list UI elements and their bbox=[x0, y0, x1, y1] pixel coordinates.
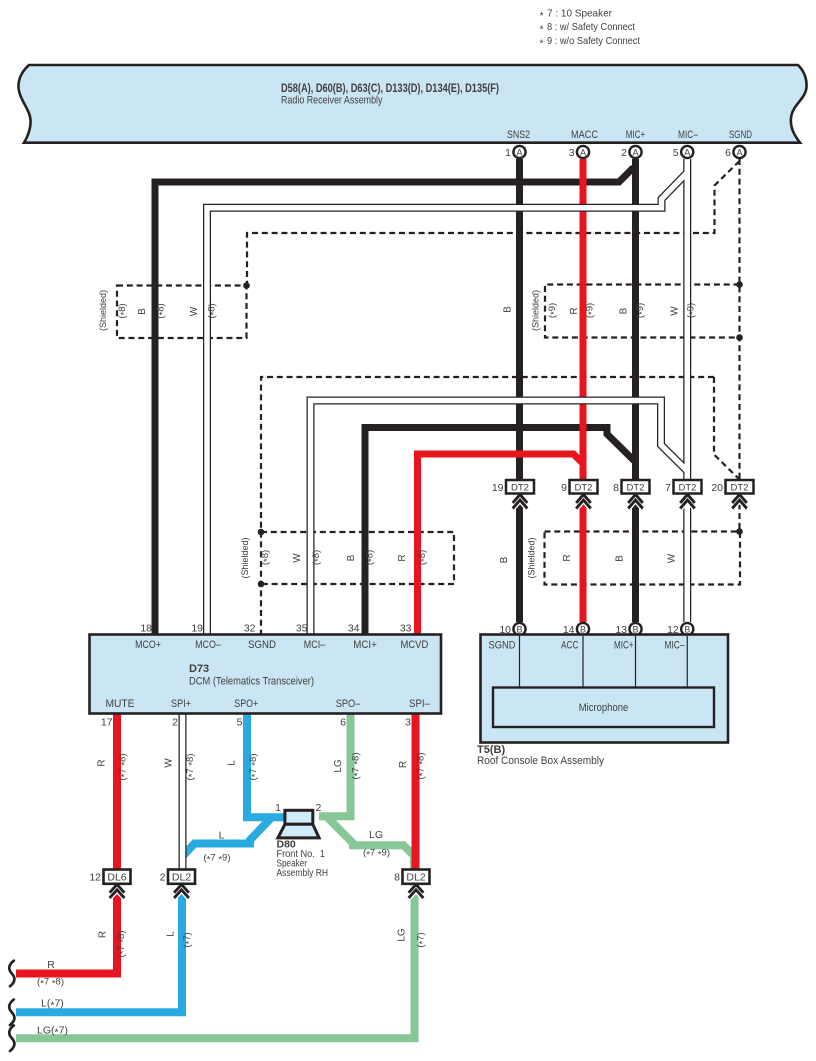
svg-text:32: 32 bbox=[244, 623, 256, 635]
svg-text:LG: LG bbox=[369, 829, 383, 841]
svg-text:17: 17 bbox=[101, 717, 113, 729]
svg-text:7 : 10 Speaker: 7 : 10 Speaker bbox=[547, 8, 612, 20]
svg-text:(*7 *8): (*7 *8) bbox=[185, 754, 198, 781]
svg-text:D73: D73 bbox=[189, 663, 209, 675]
svg-text:A: A bbox=[632, 147, 638, 157]
svg-text:DT2: DT2 bbox=[575, 483, 593, 494]
svg-text:A: A bbox=[580, 147, 586, 157]
svg-text:B: B bbox=[346, 554, 357, 561]
svg-text:MCI+: MCI+ bbox=[353, 639, 377, 651]
svg-text:MIC+: MIC+ bbox=[626, 129, 646, 141]
svg-text:DT2: DT2 bbox=[731, 483, 749, 494]
svg-text:*: * bbox=[540, 24, 544, 36]
svg-text:33: 33 bbox=[400, 623, 412, 635]
svg-text:(*8): (*8) bbox=[206, 303, 219, 318]
svg-text:MACC: MACC bbox=[571, 129, 598, 141]
svg-text:R: R bbox=[398, 761, 409, 768]
svg-text:(*7 *9): (*7 *9) bbox=[363, 848, 390, 861]
svg-text:8: 8 bbox=[394, 872, 400, 884]
svg-text:35: 35 bbox=[296, 623, 308, 635]
svg-text:5: 5 bbox=[673, 147, 679, 159]
svg-text:6: 6 bbox=[340, 717, 346, 729]
svg-text:(*7): (*7) bbox=[416, 932, 429, 947]
svg-text:DL6: DL6 bbox=[107, 872, 126, 884]
svg-text:Microphone: Microphone bbox=[579, 702, 629, 714]
svg-text:B: B bbox=[516, 624, 522, 634]
svg-text:(*7): (*7) bbox=[182, 932, 195, 947]
svg-text:DT2: DT2 bbox=[679, 483, 697, 494]
svg-text:B: B bbox=[615, 555, 626, 562]
svg-text:(Shielded): (Shielded) bbox=[240, 538, 251, 579]
svg-text:SGND: SGND bbox=[489, 640, 516, 652]
svg-text:DCM (Telematics Transceiver): DCM (Telematics Transceiver) bbox=[189, 676, 314, 688]
svg-text:8 : w/ Safety Connect: 8 : w/ Safety Connect bbox=[547, 21, 635, 33]
svg-text:Roof Console Box Assembly: Roof Console Box Assembly bbox=[477, 755, 604, 767]
svg-text:D58(A), D60(B), D63(C), D133(D: D58(A), D60(B), D63(C), D133(D), D134(E)… bbox=[281, 83, 499, 95]
svg-text:R: R bbox=[47, 959, 55, 971]
svg-text:SGND: SGND bbox=[248, 639, 276, 651]
svg-text:(Shielded): (Shielded) bbox=[531, 290, 542, 331]
svg-text:MIC+: MIC+ bbox=[614, 640, 634, 652]
svg-text:B: B bbox=[503, 306, 514, 313]
svg-text:(*7 *8): (*7 *8) bbox=[351, 753, 364, 780]
svg-text:SNS2: SNS2 bbox=[507, 129, 530, 141]
svg-text:34: 34 bbox=[348, 623, 360, 635]
svg-text:(*8): (*8) bbox=[117, 303, 130, 318]
svg-text:(*8): (*8) bbox=[155, 303, 168, 318]
svg-text:SPO+: SPO+ bbox=[234, 698, 258, 710]
svg-text:B: B bbox=[580, 624, 586, 634]
svg-text:(*8): (*8) bbox=[365, 550, 378, 565]
svg-text:R: R bbox=[98, 931, 109, 938]
svg-text:(*7 *9): (*7 *9) bbox=[204, 853, 231, 866]
svg-text:W: W bbox=[164, 758, 175, 768]
svg-text:SPI+: SPI+ bbox=[171, 698, 191, 710]
svg-text:6: 6 bbox=[725, 147, 731, 159]
svg-text:B: B bbox=[619, 307, 630, 314]
svg-text:(*9): (*9) bbox=[585, 303, 598, 318]
svg-text:19: 19 bbox=[191, 623, 203, 635]
svg-text:A: A bbox=[684, 147, 690, 157]
svg-text:B: B bbox=[499, 556, 510, 563]
svg-text:LG: LG bbox=[333, 759, 344, 773]
svg-text:2: 2 bbox=[160, 872, 166, 884]
svg-text:2: 2 bbox=[172, 717, 178, 729]
svg-text:Radio Receiver Assembly: Radio Receiver Assembly bbox=[281, 95, 383, 107]
svg-text:(*7 *8): (*7 *8) bbox=[118, 754, 131, 781]
svg-text:R: R bbox=[97, 759, 108, 766]
svg-text:L: L bbox=[166, 931, 177, 937]
svg-text:7: 7 bbox=[665, 482, 671, 494]
svg-text:(*9): (*9) bbox=[635, 303, 648, 318]
svg-text:B: B bbox=[632, 624, 638, 634]
svg-text:R: R bbox=[562, 554, 573, 561]
svg-text:(*8): (*8) bbox=[311, 550, 324, 565]
svg-text:(*8): (*8) bbox=[417, 550, 430, 565]
svg-text:18: 18 bbox=[140, 623, 152, 635]
svg-text:SPI–: SPI– bbox=[409, 698, 431, 710]
svg-text:DT2: DT2 bbox=[627, 483, 645, 494]
svg-text:B: B bbox=[137, 308, 148, 315]
svg-text:2: 2 bbox=[621, 147, 627, 159]
svg-text:SPO–: SPO– bbox=[336, 698, 361, 710]
svg-text:3: 3 bbox=[569, 147, 575, 159]
svg-text:(*9): (*9) bbox=[686, 303, 699, 318]
svg-text:MCVD: MCVD bbox=[400, 639, 428, 651]
svg-text:(Shielded): (Shielded) bbox=[527, 538, 538, 579]
svg-text:MCO+: MCO+ bbox=[135, 639, 161, 651]
svg-text:19: 19 bbox=[492, 482, 504, 494]
svg-text:9: 9 bbox=[561, 482, 567, 494]
svg-text:1: 1 bbox=[505, 147, 511, 159]
svg-text:12: 12 bbox=[89, 872, 101, 884]
svg-text:A: A bbox=[736, 147, 742, 157]
svg-text:(Shielded): (Shielded) bbox=[98, 290, 109, 331]
svg-text:R: R bbox=[397, 554, 408, 561]
svg-text:DL2: DL2 bbox=[406, 872, 425, 884]
svg-text:*: * bbox=[540, 37, 544, 49]
svg-text:L: L bbox=[227, 760, 238, 766]
svg-text:MIC–: MIC– bbox=[665, 640, 686, 652]
svg-text:MCI–: MCI– bbox=[304, 639, 326, 651]
svg-text:9 : w/o Safety Connect: 9 : w/o Safety Connect bbox=[547, 35, 640, 47]
svg-text:DT2: DT2 bbox=[511, 483, 529, 494]
svg-text:(*7 *8): (*7 *8) bbox=[248, 754, 261, 781]
svg-text:ACC: ACC bbox=[561, 640, 579, 652]
svg-text:(*7 *8): (*7 *8) bbox=[116, 931, 129, 958]
svg-text:A: A bbox=[516, 147, 522, 157]
svg-text:W: W bbox=[670, 306, 681, 316]
svg-text:DL2: DL2 bbox=[172, 872, 191, 884]
svg-text:W: W bbox=[667, 553, 678, 563]
svg-text:3: 3 bbox=[405, 717, 411, 729]
svg-text:(*7 *8): (*7 *8) bbox=[416, 753, 429, 780]
svg-text:8: 8 bbox=[613, 482, 619, 494]
svg-text:2: 2 bbox=[316, 802, 322, 814]
svg-text:LG: LG bbox=[397, 928, 408, 942]
svg-text:Assembly RH: Assembly RH bbox=[277, 867, 329, 879]
svg-text:B: B bbox=[684, 624, 690, 634]
svg-text:W: W bbox=[292, 553, 303, 563]
svg-text:5: 5 bbox=[237, 717, 243, 729]
svg-text:(*8): (*8) bbox=[260, 550, 273, 565]
svg-text:(*9): (*9) bbox=[547, 303, 560, 318]
svg-text:W: W bbox=[189, 306, 200, 316]
svg-text:SGND: SGND bbox=[729, 129, 752, 141]
svg-text:MIC–: MIC– bbox=[678, 129, 699, 141]
svg-text:20: 20 bbox=[711, 482, 723, 494]
svg-text:MUTE: MUTE bbox=[106, 698, 135, 710]
svg-text:L: L bbox=[219, 830, 225, 842]
svg-text:MCO–: MCO– bbox=[195, 639, 221, 651]
svg-text:R: R bbox=[569, 307, 580, 314]
svg-text:(*7 *8): (*7 *8) bbox=[37, 977, 64, 990]
svg-text:*: * bbox=[540, 10, 544, 22]
svg-text:1: 1 bbox=[275, 802, 281, 814]
